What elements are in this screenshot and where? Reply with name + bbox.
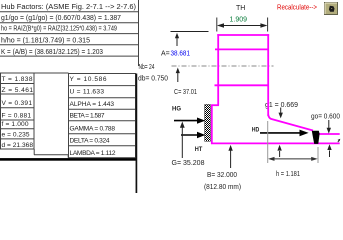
bolt hole lower line: [215, 84, 269, 86]
bold column border right of tables: [135, 74, 137, 194]
gap cell top border: [34, 72, 69, 74]
dimension 1.909 extension lines: [216, 18, 218, 32]
formula row 3 underline: [0, 33, 139, 35]
left factor table values: [2, 76, 34, 149]
svg-text:Y = 10.586: Y = 10.586: [70, 76, 107, 83]
ring left edge: [217, 34, 219, 105]
svg-text:HT: HT: [195, 146, 203, 153]
h extension line left: [267, 121, 269, 163]
svg-text:e = 0.235: e = 0.235: [2, 131, 30, 138]
svg-text:h/ho = (1.181/3.749) = 0.315: h/ho = (1.181/3.749) = 0.315: [1, 38, 90, 45]
svg-text:U = 11.633: U = 11.633: [70, 88, 105, 95]
svg-text:V = 0.391: V = 0.391: [2, 100, 33, 107]
svg-text:h = 1.181: h = 1.181: [276, 171, 300, 178]
HD arrow: [260, 132, 300, 134]
weld mark: [312, 131, 320, 144]
thick bottom separator line: [0, 158, 137, 161]
svg-text:TH: TH: [236, 5, 245, 12]
formula row 1 underline: [0, 11, 139, 13]
bolt hole upper line: [215, 48, 268, 50]
svg-text:GAMMA = 0.788: GAMMA = 0.788: [70, 126, 116, 133]
svg-text:38.681: 38.681: [171, 51, 191, 58]
h extension line right: [317, 147, 319, 163]
formula row 2 underline: [0, 22, 139, 24]
svg-text:DELTA = 0.324: DELTA = 0.324: [70, 138, 110, 145]
formula row 5 underline: [0, 55, 139, 57]
svg-text:HG: HG: [172, 106, 181, 113]
svg-text:Recalculate-->: Recalculate-->: [277, 5, 317, 12]
right factor table grid: [69, 74, 136, 158]
svg-text:G= 35.208: G= 35.208: [172, 160, 205, 167]
go down arrow: [328, 120, 330, 130]
mid up arrow (bore): [279, 151, 281, 157]
centerline dash-dot (bolt circle): [172, 65, 274, 67]
hub taper: [268, 115, 313, 131]
dimension 1.909 line with arrows: [219, 25, 266, 27]
arrow up to centerline (C): [177, 72, 179, 83]
svg-text:f = 1.000: f = 1.000: [2, 121, 29, 128]
svg-text:ALPHA = 1.443: ALPHA = 1.443: [70, 101, 115, 108]
go up arrow: [329, 151, 331, 158]
flange ring outline (magenta): [211, 34, 340, 144]
ring top edge: [217, 34, 269, 36]
bore line: [211, 142, 340, 144]
svg-text:K = (A/B) = (38.681/32.125) =: K = (A/B) = (38.681/32.125) = 1.203: [1, 49, 103, 56]
svg-text:g1 = 0.669: g1 = 0.669: [265, 102, 298, 109]
HG arrow 2: [181, 134, 198, 136]
HG arrow 1: [174, 120, 198, 122]
svg-text:Z = 5.461: Z = 5.461: [2, 87, 34, 94]
arrow up to A line: [176, 37, 178, 47]
spreadsheet vertical border: [138, 0, 140, 66]
svg-text:BETA = 1.587: BETA = 1.587: [70, 112, 105, 119]
svg-text:(812.80 mm): (812.80 mm): [204, 184, 241, 191]
svg-text:Nb= 24: Nb= 24: [139, 64, 155, 71]
svg-text:Hub Factors: (ASME Fig. 2-7.1: Hub Factors: (ASME Fig. 2-7.1 --> 2-7.6): [1, 4, 136, 11]
g1 leader arrow (down): [280, 108, 282, 114]
gasket (hatched): [205, 105, 211, 142]
svg-text:d = 21.368: d = 21.368: [2, 142, 34, 149]
svg-text:1.909: 1.909: [230, 17, 248, 24]
left factor table grid: [1, 73, 35, 149]
pipe wall top: [319, 133, 340, 135]
svg-text:HD: HD: [252, 127, 260, 134]
svg-text:A=: A=: [161, 51, 170, 58]
svg-text:g1/go = (g1/go) = (0.607/0.438: g1/go = (g1/go) = (0.607/0.438) = 1.387: [1, 15, 121, 22]
flange face edge: [211, 104, 213, 144]
gap cell bottom border: [34, 154, 69, 156]
right factor table values: [70, 76, 116, 157]
svg-text:F = 0.881: F = 0.881: [2, 112, 32, 119]
G leader arrow: [181, 127, 183, 158]
svg-text:db= 0.750: db= 0.750: [138, 76, 168, 83]
macro button: [325, 3, 338, 15]
svg-text:LAMBDA = 1.112: LAMBDA = 1.112: [70, 150, 116, 157]
svg-text:C= 37.01: C= 37.01: [174, 89, 197, 96]
dimension line A (OD level line): [171, 31, 209, 33]
ring right edge: [267, 34, 269, 116]
svg-text:go= 0.600: go= 0.600: [311, 114, 340, 121]
raised face step: [211, 104, 219, 106]
svg-text:B= 32.000: B= 32.000: [207, 172, 237, 179]
small diagonal arrow right end: [338, 140, 340, 143]
B leader arrow: [230, 150, 232, 168]
svg-text:T = 1.838: T = 1.838: [2, 76, 33, 83]
formula row 4 underline: [0, 44, 139, 46]
svg-text:ho = RAIZ(B*g0) = RAIZ(32.125*: ho = RAIZ(B*g0) = RAIZ(32.125*0.438) = 3…: [1, 26, 117, 33]
h dimension line: [270, 158, 316, 160]
